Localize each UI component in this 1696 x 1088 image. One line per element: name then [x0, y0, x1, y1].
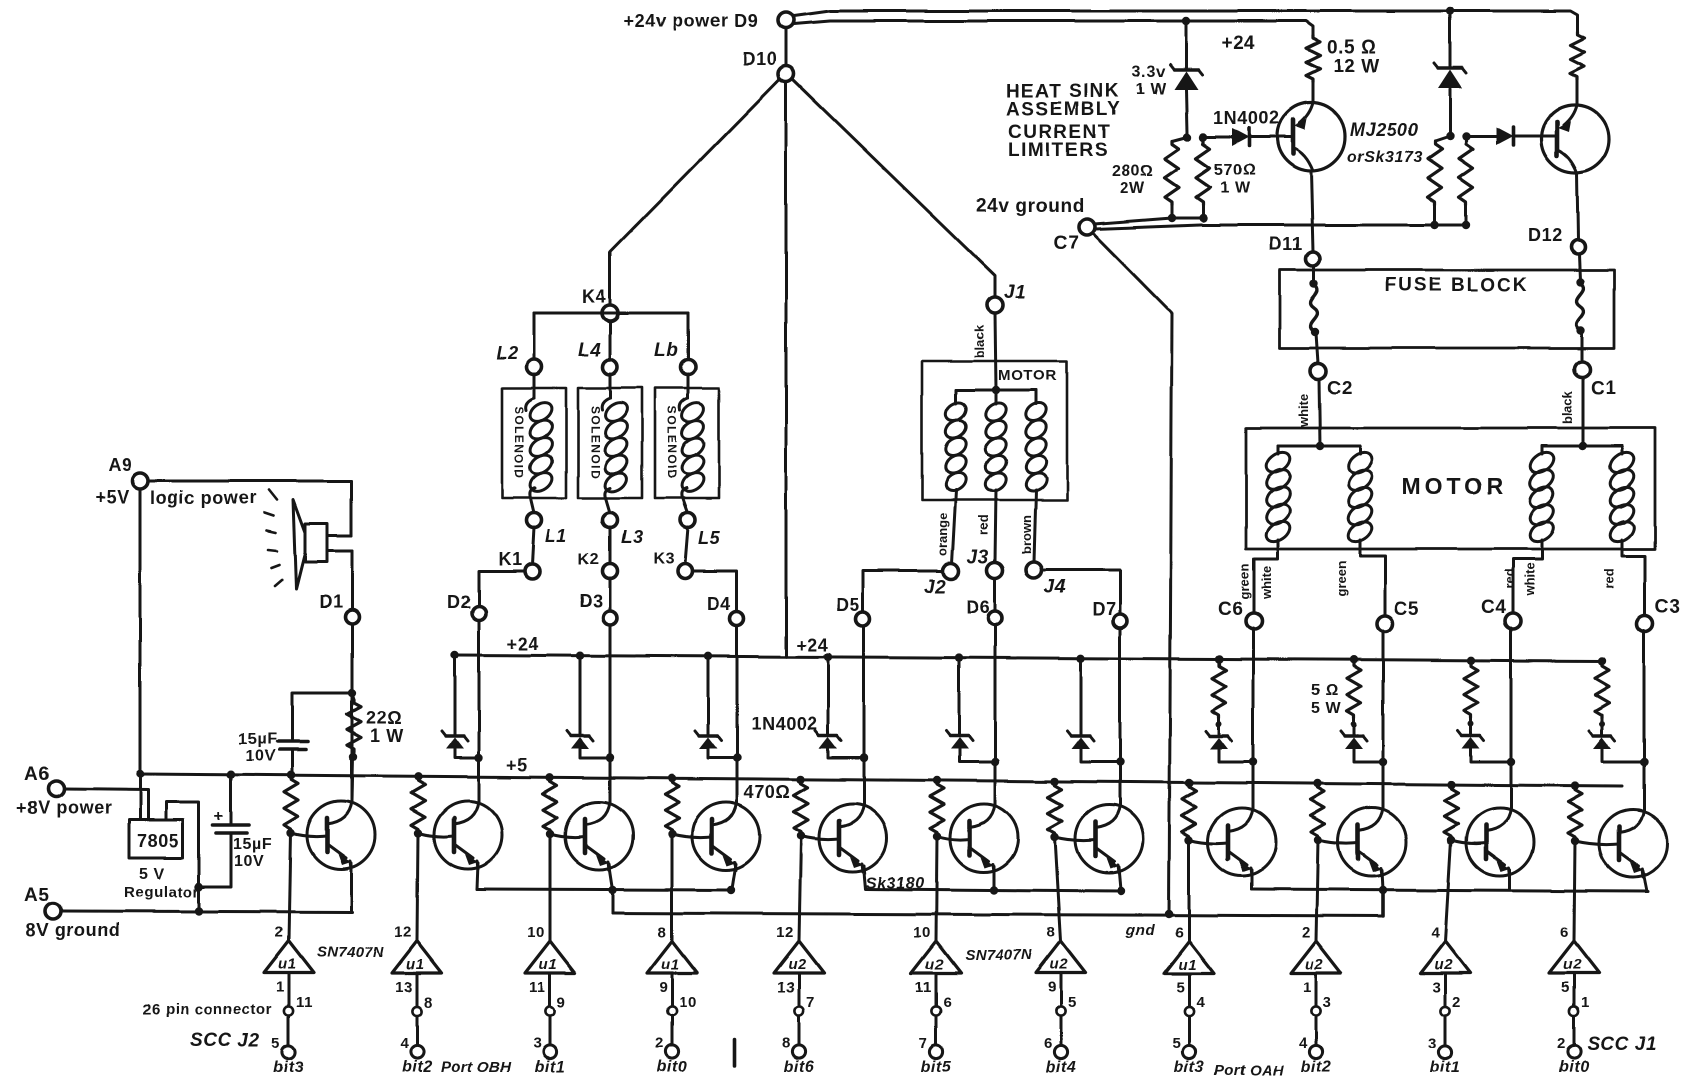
transistor Q5 (SK3180) — [819, 804, 887, 872]
label 1N4002 (bus) — [751, 714, 818, 734]
wire buffer input stage 5 — [799, 836, 801, 941]
junction Q7 emitter — [1117, 887, 1125, 895]
wire snubber res to diode stage 9 — [1353, 724, 1356, 736]
flyback diode stage 10 (1N4002) — [1458, 731, 1484, 749]
buffer u2 stage 7 — [1036, 941, 1086, 973]
wire buffer input stage 6 — [936, 836, 937, 941]
svg-text:12: 12 — [394, 924, 412, 941]
svg-text:4: 4 — [1431, 924, 1440, 941]
svg-text:SCC J1: SCC J1 — [1587, 1034, 1657, 1055]
pin label 3 stage 10 — [1428, 1035, 1437, 1052]
wire cap C-b bottom lead — [199, 834, 231, 887]
motor coil M4 — [1606, 448, 1637, 546]
svg-text:bit0: bit0 — [1559, 1059, 1590, 1076]
svg-text:bit3: bit3 — [274, 1059, 305, 1076]
junction Q9 emitter / gnd jog — [1379, 886, 1387, 894]
pin 10 (buffer top) stage 6 — [913, 924, 931, 941]
wire buffer input stage 3 — [549, 834, 552, 941]
transistor Q6 (SK3180) — [950, 804, 1018, 872]
junction F1 bottom — [1311, 328, 1319, 336]
junction collector node stage 8 — [1249, 758, 1257, 766]
capacitor 15uF-b — [213, 825, 249, 833]
wire to edge connector stage 3 — [549, 1016, 552, 1045]
transistor Q4 (SK3180) — [692, 802, 760, 870]
svg-text:11: 11 — [529, 979, 546, 996]
wire to edge connector stage 10 — [1444, 1016, 1447, 1045]
left motor coil C — [1022, 399, 1049, 495]
connector pin big stage 6 — [929, 1045, 942, 1058]
svg-text:8V ground: 8V ground — [26, 920, 120, 940]
flyback diode stage 2 (1N4002) — [442, 731, 468, 749]
svg-text:u1: u1 — [661, 956, 680, 973]
flyback diode stage 8 (1N4002) — [1206, 731, 1232, 749]
label 280ohm — [1112, 163, 1154, 180]
wire buffer input stage 7 — [1055, 837, 1061, 941]
label white (C2 wire) — [1296, 394, 1311, 428]
wire buffer input stage 2 — [417, 833, 418, 941]
pin 9 (buffer bottom) stage 7 — [1048, 979, 1057, 996]
wire buffer input stage 4 — [671, 834, 674, 941]
speaker SP1 — [293, 500, 352, 589]
connector pin big stage 2 — [410, 1045, 423, 1058]
junction +5 tap stage 4 — [668, 774, 676, 782]
label orange — [935, 513, 950, 556]
wire cap C-b top lead — [230, 775, 233, 824]
transistor Q2 (SK3180) — [434, 801, 502, 869]
node L4 — [603, 360, 618, 375]
wire J1 into motor — [995, 313, 996, 389]
wire base stage 10 — [1451, 840, 1486, 844]
wire M2 to C5 — [1360, 540, 1385, 617]
wire to edge connector stage 11 — [1573, 1016, 1576, 1045]
svg-text:u1: u1 — [1178, 956, 1197, 973]
svg-text:black: black — [972, 324, 987, 358]
junction R570b bottom — [1462, 221, 1470, 229]
wire F1 to C2 — [1316, 333, 1318, 363]
pin label 11 stage 1 — [296, 994, 313, 1011]
svg-text:u2: u2 — [925, 956, 944, 973]
junction +5 tap stage 7 — [1051, 777, 1059, 785]
svg-text:u2: u2 — [788, 956, 807, 973]
pin 8 (buffer top) stage 4 — [658, 924, 667, 941]
pin 4 (buffer top) stage 10 — [1431, 924, 1440, 941]
solenoid box 2 — [578, 388, 642, 498]
svg-text:6: 6 — [943, 994, 952, 1011]
wire coil C lead — [1035, 390, 1038, 404]
svg-text:D11: D11 — [1269, 234, 1303, 254]
svg-text:5: 5 — [1172, 1035, 1181, 1052]
svg-text:bit4: bit4 — [1046, 1059, 1077, 1076]
svg-text:Lb: Lb — [654, 340, 678, 361]
resistor R-570 body — [1196, 137, 1210, 218]
svg-text:5: 5 — [1561, 979, 1570, 996]
base resistor stage 2 — [411, 777, 425, 832]
node K4 — [602, 305, 618, 321]
junction +5 tap stage 1 — [287, 771, 295, 779]
svg-text:bit5: bit5 — [921, 1059, 952, 1076]
wire to edge connector stage 4 — [671, 1016, 674, 1045]
wire buffer out stage 1 — [288, 973, 291, 1006]
wire Q2 emitter drop — [477, 863, 478, 889]
label Port OAH — [1214, 1062, 1285, 1079]
label K2 — [578, 551, 600, 568]
junction +24 tap stage 9 — [1350, 656, 1358, 664]
wire buffer out stage 3 — [549, 973, 552, 1006]
svg-text:22Ω: 22Ω — [366, 708, 402, 728]
junction snubber mid stage 9 — [1351, 721, 1357, 727]
svg-text:11: 11 — [296, 994, 313, 1011]
transistor Q11 (SK3180) — [1599, 809, 1667, 877]
wire diode to collector node stage 9 — [1354, 749, 1383, 762]
left motor coil B — [982, 399, 1009, 495]
flyback diode stage 4 (1N4002) — [695, 731, 721, 749]
node D9 (+24V power) — [778, 12, 794, 28]
label D7 — [1092, 599, 1116, 619]
svg-text:5 Ω: 5 Ω — [1311, 682, 1339, 699]
label L5 — [698, 528, 721, 548]
buffer u2 stage 11 — [1549, 941, 1599, 973]
wire diode to Q12 base — [1249, 136, 1293, 139]
wire collector stage 3 — [609, 625, 612, 802]
pin label 4 stage 9 — [1299, 1035, 1308, 1052]
wire A6 to regulator — [64, 789, 148, 820]
label MOTOR (right) — [1402, 473, 1507, 499]
wire +24 to diode stage 4 — [707, 656, 710, 736]
diode CR1 1N4002 — [1232, 128, 1249, 146]
svg-text:7805: 7805 — [137, 831, 179, 851]
wire zener Z1 lead — [1186, 21, 1187, 133]
wire collector stage 2 — [478, 620, 481, 801]
wire collector stage 1 — [351, 624, 354, 801]
wire gnd jog right — [1381, 890, 1385, 916]
buffer u2 stage 6 — [911, 941, 961, 973]
node L5 — [681, 513, 696, 528]
wire A9 to speaker top — [148, 480, 351, 483]
label bit2 stage 9 — [1301, 1059, 1332, 1076]
svg-text:C2: C2 — [1327, 378, 1353, 399]
junction on upper rail (zener Z2 tap) — [1446, 7, 1454, 15]
zener Z2 — [1434, 63, 1466, 88]
node D6 — [988, 611, 1002, 625]
junction base node stage 1 — [287, 829, 295, 837]
wire F2 to C1 — [1581, 331, 1584, 361]
wire M3 to C4 — [1513, 540, 1542, 614]
label HEAT SINK — [1006, 81, 1120, 102]
svg-text:L2: L2 — [496, 343, 518, 363]
zener Z1 3.3V 1W — [1170, 65, 1202, 90]
svg-text:K4: K4 — [582, 287, 606, 307]
wire motor coil M2 lead — [1359, 446, 1362, 454]
label 24v ground — [976, 196, 1084, 217]
wire zener Z2 lead — [1449, 11, 1452, 132]
svg-text:1: 1 — [1581, 994, 1590, 1011]
label bit2 stage 2 — [402, 1059, 433, 1076]
motor coil M1 — [1262, 448, 1293, 546]
svg-text:J2: J2 — [924, 577, 946, 598]
transistor Q3 (SK3180) — [565, 802, 633, 870]
svg-text:4: 4 — [1196, 994, 1205, 1011]
pin 6 (buffer top) stage 8 — [1175, 924, 1184, 941]
junction +24 tap stage 4 — [704, 652, 712, 660]
svg-text:6: 6 — [1044, 1035, 1053, 1052]
label FUSE BLOCK — [1385, 275, 1529, 296]
label Sk3180 — [866, 875, 925, 892]
label C5 — [1394, 599, 1420, 620]
wire J3 to D6 — [994, 578, 997, 611]
wire buffer input stage 10 — [1445, 840, 1451, 941]
wire L2 to solenoid 1 — [533, 374, 536, 398]
svg-text:6: 6 — [1175, 924, 1184, 941]
svg-text:1 W: 1 W — [1220, 180, 1251, 197]
wire D12 to fuse F2 — [1579, 254, 1580, 281]
svg-text:green: green — [1334, 561, 1349, 596]
label CURRENT — [1008, 122, 1111, 143]
svg-text:8: 8 — [658, 924, 667, 941]
left motor coil A — [942, 399, 969, 495]
svg-text:D5: D5 — [836, 595, 860, 615]
label MJ2500 — [1350, 120, 1419, 140]
svg-text:A6: A6 — [24, 764, 50, 785]
label L6 — [654, 340, 678, 361]
label SCC J1 — [1587, 1034, 1657, 1055]
wire diode CR2 to Q13 base — [1513, 135, 1557, 138]
label D12 — [1528, 225, 1563, 245]
svg-text:570Ω: 570Ω — [1214, 162, 1256, 179]
pin 1 (buffer bottom) stage 9 — [1303, 979, 1312, 996]
wire base stage 5 — [801, 836, 839, 840]
wire regulator gnd pin — [166, 802, 199, 887]
connector pin big stage 11 — [1567, 1045, 1580, 1058]
svg-text:24v ground: 24v ground — [976, 196, 1084, 217]
wire buffer out stage 4 — [671, 973, 674, 1006]
regulator 7805 box — [129, 820, 183, 858]
junction +5 tap stage 2 — [414, 772, 422, 780]
svg-text:4: 4 — [400, 1035, 409, 1052]
wire L3 to K2 — [609, 527, 612, 564]
wire D9 to D10 — [785, 28, 788, 66]
label +24v power D9 — [624, 11, 758, 31]
resistor 0.5ohm 12W — [1306, 35, 1320, 103]
transistor Q9 (SK3180) — [1338, 808, 1406, 876]
label C3 — [1655, 597, 1681, 618]
junction +5/A9 — [136, 770, 144, 778]
wire base stage 2 — [418, 833, 454, 837]
resistor R-570b — [1459, 136, 1473, 225]
wire buffer out stage 9 — [1315, 973, 1318, 1006]
junction 570 bottom — [1199, 214, 1207, 222]
svg-text:red: red — [976, 515, 991, 535]
svg-text:u2: u2 — [1434, 956, 1453, 973]
wire collector stage 8 — [1252, 628, 1255, 808]
connector pin small stage 2 — [412, 1006, 421, 1015]
wire J4 to D7 — [1042, 570, 1120, 614]
svg-text:6: 6 — [1560, 924, 1569, 941]
label D6 — [966, 597, 990, 617]
label D11 — [1269, 234, 1303, 254]
svg-text:Port OAH: Port OAH — [1214, 1062, 1285, 1079]
node A9 — [132, 473, 148, 489]
label 1W (Z1) — [1136, 81, 1167, 98]
wire buffer out stage 6 — [935, 973, 938, 1006]
svg-text:1N4002: 1N4002 — [751, 714, 818, 734]
fuse block box — [1280, 270, 1614, 348]
svg-text:red: red — [1502, 569, 1517, 589]
svg-text:u1: u1 — [406, 956, 425, 973]
svg-text:J1: J1 — [1004, 282, 1026, 303]
svg-text:D3: D3 — [579, 591, 603, 611]
solenoid coil 3 — [679, 398, 708, 496]
solenoid box 3 — [655, 388, 719, 498]
wire Q12 collector to D11 — [1311, 171, 1313, 252]
junction base node stage 10 — [1447, 836, 1455, 844]
label gnd — [1125, 922, 1156, 939]
pin 11 (buffer bottom) stage 3 — [529, 979, 546, 996]
junction base node Q13 right — [1462, 132, 1470, 140]
label L3 — [621, 527, 643, 547]
wire Q8 emitter drop — [1251, 870, 1254, 889]
svg-text:bit2: bit2 — [1301, 1059, 1332, 1076]
base resistor stage 6 — [930, 782, 944, 836]
node C1 — [1574, 361, 1590, 377]
svg-text:D7: D7 — [1092, 599, 1116, 619]
label logic power — [150, 488, 257, 508]
connector pin small stage 11 — [1569, 1006, 1578, 1015]
svg-text:A9: A9 — [108, 455, 132, 475]
speaker sound waves — [264, 490, 282, 586]
node K1 — [525, 564, 540, 579]
label 22ohm — [366, 708, 402, 728]
node L3 — [603, 513, 618, 528]
svg-text:+5: +5 — [506, 755, 528, 775]
buffer u1 stage 4 — [647, 941, 697, 973]
buffer u1 stage 3 — [525, 941, 575, 973]
svg-text:2: 2 — [1452, 994, 1461, 1011]
node K2 — [603, 564, 618, 579]
junction J1 node in motor — [992, 386, 1000, 394]
node D12 — [1571, 240, 1585, 254]
pin 11 (buffer bottom) stage 6 — [915, 979, 932, 996]
wire collector stage 6 — [994, 625, 997, 804]
junction on lower rail (zener Z1 tap) — [1182, 17, 1190, 25]
svg-text:bit6: bit6 — [784, 1059, 815, 1076]
node D3 — [603, 611, 617, 625]
wire coil B to J3 — [995, 490, 996, 562]
label A5 — [24, 885, 50, 906]
svg-text:5: 5 — [272, 1035, 281, 1052]
node D5 — [856, 612, 870, 626]
wire coil A to J2 — [952, 490, 956, 564]
fuse F2 — [1577, 283, 1584, 329]
flyback diode stage 6 (1N4002) — [946, 731, 972, 749]
svg-text:green: green — [1237, 564, 1252, 599]
resistor 0.5ohm b — [1570, 32, 1584, 105]
label +24 (top) — [1222, 33, 1256, 54]
svg-text:K2: K2 — [578, 551, 600, 568]
wire to edge connector stage 5 — [798, 1016, 801, 1045]
wire to edge connector stage 2 — [416, 1016, 419, 1045]
svg-text:2W: 2W — [1120, 180, 1145, 197]
node C2 — [1310, 363, 1326, 379]
svg-text:SOLENOID: SOLENOID — [588, 406, 602, 480]
svg-text:1 W: 1 W — [370, 726, 404, 746]
label SN7407N (right) — [965, 947, 1033, 964]
label K1 — [498, 549, 522, 569]
junction Q4 emitter — [727, 886, 735, 894]
wire Q13 collector to D12 — [1577, 173, 1578, 240]
svg-text:L1: L1 — [545, 526, 567, 546]
svg-text:15µF: 15µF — [238, 731, 277, 748]
label +5 — [506, 755, 528, 775]
pin label 3 stage 3 — [533, 1035, 542, 1052]
junction +5 tap stage 8 — [1185, 778, 1193, 786]
node D4 — [730, 612, 744, 626]
connector pin big stage 5 — [792, 1045, 805, 1058]
svg-text:11: 11 — [915, 979, 932, 996]
svg-text:C4: C4 — [1481, 597, 1507, 618]
label L4 — [578, 340, 601, 361]
left motor box — [922, 361, 1067, 500]
wire coil B lead — [995, 390, 998, 404]
snubber resistor 5ohm stage 11 — [1595, 661, 1609, 724]
svg-text:+24: +24 — [796, 635, 828, 655]
wire base stage 6 — [937, 836, 970, 840]
wire +24 to diode stage 5 — [827, 657, 830, 736]
label J3 — [967, 547, 989, 568]
buffer u2 stage 5 — [774, 941, 824, 973]
svg-text:J4: J4 — [1044, 577, 1066, 598]
junction motor right pair — [1579, 442, 1587, 450]
pin 8 (buffer top) stage 7 — [1047, 924, 1056, 941]
wire left motor link — [956, 389, 1036, 392]
right emitter bus — [1252, 889, 1648, 891]
svg-text:8: 8 — [424, 994, 433, 1011]
junction base node stage 7 — [1051, 833, 1059, 841]
wire motor coil M4 lead — [1621, 446, 1624, 454]
svg-text:7: 7 — [919, 1035, 928, 1052]
junction snubber mid stage 10 — [1468, 721, 1474, 727]
wire gnd jog left — [612, 890, 615, 913]
svg-text:L3: L3 — [621, 527, 643, 547]
label bit5 stage 6 — [921, 1059, 952, 1076]
svg-text:red: red — [1602, 569, 1617, 589]
base resistor stage 4 — [665, 779, 679, 833]
wire motor left pair link — [1278, 445, 1360, 448]
label green (C5) — [1334, 561, 1349, 596]
capacitor 15uF-a — [277, 742, 308, 750]
junction +24 tap stage 2 — [451, 651, 459, 659]
wire base stage 11 — [1575, 841, 1619, 845]
wire diode to collector node stage 8 — [1219, 749, 1253, 762]
wire diode to collector node stage 10 — [1471, 749, 1511, 762]
svg-text:u1: u1 — [278, 956, 297, 973]
svg-text:C1: C1 — [1591, 378, 1617, 399]
junction base node stage 5 — [797, 832, 805, 840]
node L1 — [527, 513, 542, 528]
junction base node stage 2 — [414, 829, 422, 837]
wire Q6 emitter drop — [993, 866, 996, 890]
svg-text:9: 9 — [557, 994, 566, 1011]
connector pin small stage 6 — [931, 1006, 940, 1015]
base resistor stage 3 — [543, 778, 557, 833]
pin 12 (buffer top) stage 2 — [394, 924, 412, 941]
svg-text:10: 10 — [527, 924, 545, 941]
wire solenoid 3 to L5 — [682, 496, 688, 513]
pin label 2 stage 11 — [1557, 1035, 1566, 1052]
svg-text:C6: C6 — [1218, 599, 1244, 620]
transistor Q10 (SK3180) — [1466, 808, 1534, 876]
label orSK3173 — [1347, 149, 1423, 166]
right motor box — [1246, 428, 1655, 549]
